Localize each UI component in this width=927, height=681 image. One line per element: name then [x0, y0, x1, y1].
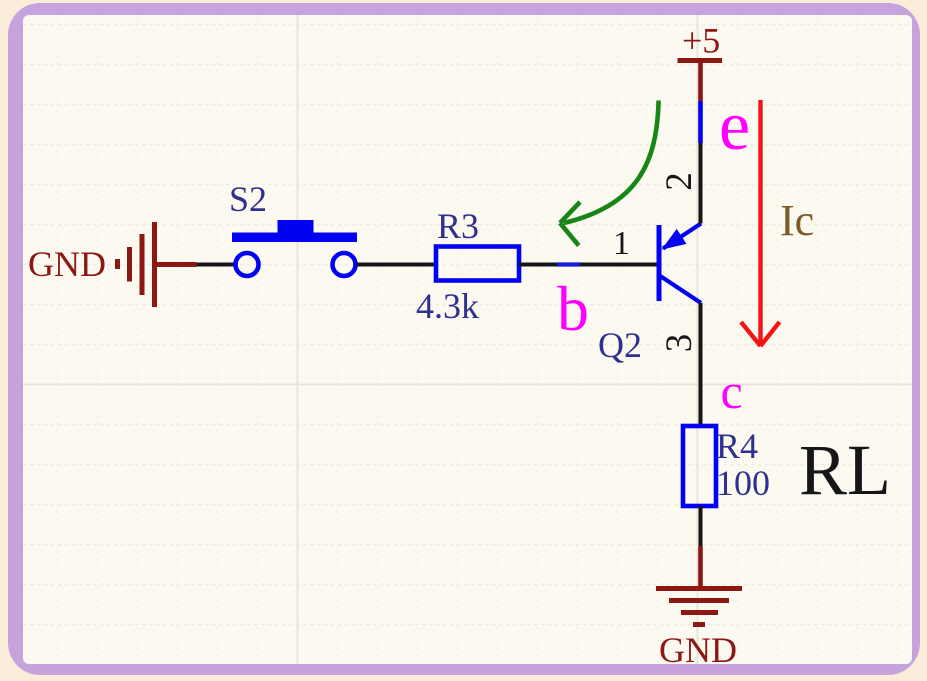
wire (R4 to ground)	[699, 506, 703, 546]
svg-text:3: 3	[659, 334, 700, 353]
wire segment (blue)	[698, 101, 703, 143]
wire (to transistor emitter)	[699, 143, 703, 224]
power stub wire (dark red)	[698, 61, 703, 102]
svg-text:R4: R4	[716, 426, 758, 466]
ground symbol (left, vertical bars)	[118, 222, 197, 307]
resistor R3	[436, 247, 519, 281]
Ic arrow (red)	[741, 100, 780, 346]
wire (transistor collector down)	[699, 303, 703, 426]
switch S2 (push button)	[236, 253, 356, 276]
svg-text:c: c	[721, 363, 743, 419]
transistor Q2	[659, 224, 701, 304]
svg-text:b: b	[557, 273, 589, 344]
green arrow (base current)	[560, 101, 659, 246]
+5 power bar symbol	[678, 58, 723, 63]
wire (ground to switch)	[197, 263, 236, 267]
svg-text:S2: S2	[229, 179, 267, 219]
svg-text:4.3k: 4.3k	[416, 286, 479, 326]
wire highlight (blue dash on base wire)	[557, 262, 580, 266]
svg-text:Q2: Q2	[598, 325, 642, 365]
svg-text:1: 1	[613, 225, 630, 262]
svg-text:RL: RL	[799, 430, 891, 510]
svg-text:GND: GND	[659, 630, 737, 670]
ground symbol (bottom)	[656, 589, 742, 625]
svg-text:2: 2	[659, 172, 700, 191]
resistor R4	[683, 426, 716, 506]
svg-text:+5: +5	[682, 21, 720, 61]
svg-text:Ic: Ic	[780, 196, 814, 245]
svg-text:e: e	[719, 88, 750, 165]
wire (switch to R3)	[357, 263, 437, 267]
svg-text:R3: R3	[437, 206, 479, 246]
ground stub (dark red)	[698, 546, 703, 586]
svg-text:GND: GND	[28, 244, 106, 284]
wire (R3 to transistor base)	[519, 263, 657, 267]
svg-text:100: 100	[716, 463, 770, 503]
